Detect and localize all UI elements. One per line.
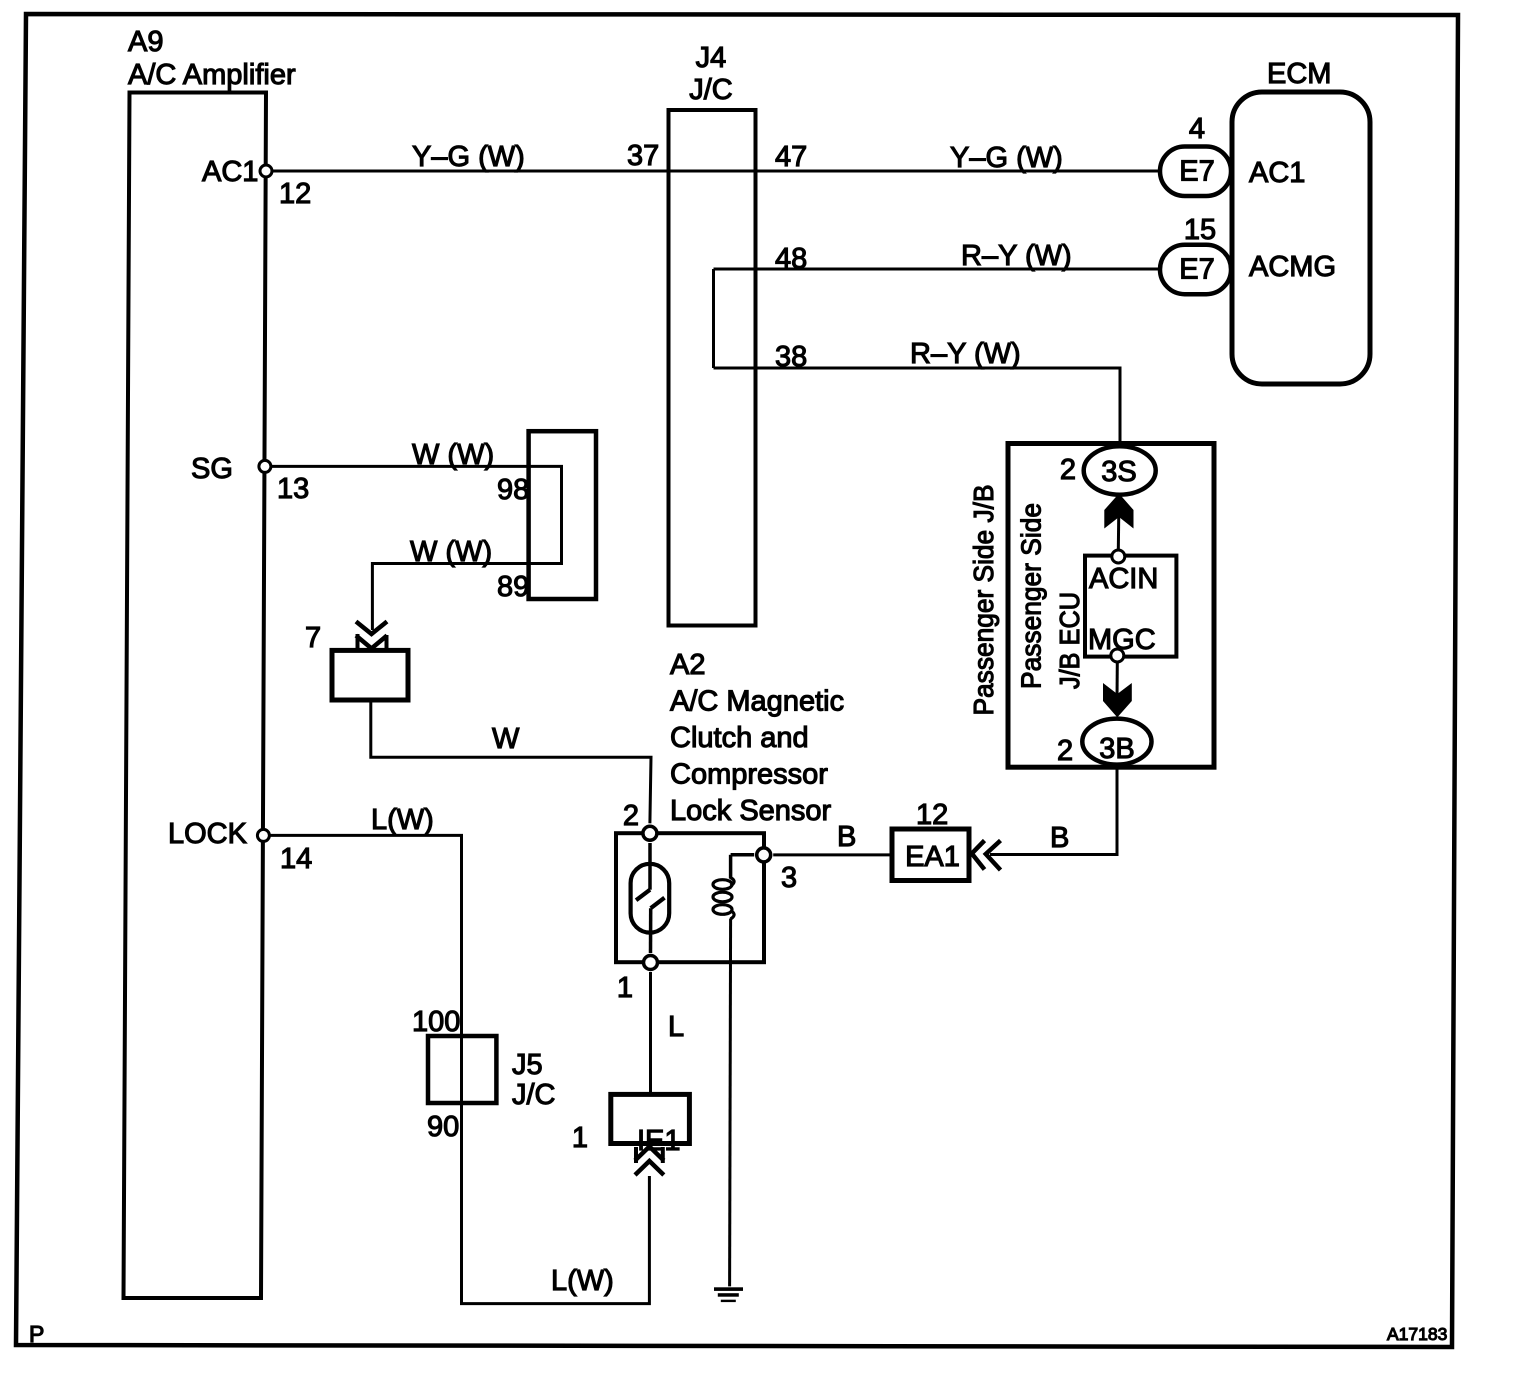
junction block 98/89 — [529, 431, 596, 599]
svg-text:J/C: J/C — [689, 74, 733, 106]
svg-text:2: 2 — [623, 800, 639, 832]
svg-text:EA1: EA1 — [905, 841, 960, 873]
pin LOCK of A9 — [257, 829, 269, 841]
wire A2 pin1 to IE1 (L) — [649, 972, 652, 1094]
svg-text:A/C Amplifier: A/C Amplifier — [128, 59, 296, 91]
svg-text:W (W): W (W) — [410, 536, 492, 568]
svg-text:J/C: J/C — [512, 1079, 556, 1111]
junction connector J5 — [428, 1036, 496, 1103]
svg-text:SG: SG — [191, 453, 233, 485]
wire 3S to ACIN — [1117, 495, 1121, 551]
svg-text:AC1: AC1 — [202, 156, 258, 188]
svg-text:ECM: ECM — [1267, 58, 1331, 90]
svg-text:E7: E7 — [1179, 156, 1214, 188]
svg-text:E7: E7 — [1179, 254, 1214, 286]
svg-text:14: 14 — [280, 843, 312, 875]
svg-text:B: B — [1050, 822, 1069, 854]
passenger side J/B box — [1008, 444, 1214, 768]
svg-text:A/C Magnetic: A/C Magnetic — [670, 686, 844, 718]
wire bracket 48-38 — [712, 269, 715, 368]
svg-text:L: L — [668, 1011, 684, 1043]
svg-text:100: 100 — [412, 1006, 460, 1038]
svg-text:47: 47 — [775, 141, 807, 173]
svg-text:MGC: MGC — [1088, 624, 1156, 656]
connector EA1 — [892, 829, 969, 881]
pin MGC — [1111, 649, 1124, 662]
A/C amplifier A9 — [124, 93, 267, 1299]
connector 3B — [1082, 719, 1151, 765]
svg-text:3: 3 — [781, 862, 797, 894]
svg-text:J4: J4 — [696, 42, 727, 74]
svg-text:Lock Sensor: Lock Sensor — [670, 795, 832, 827]
connector 3S — [1084, 446, 1156, 494]
svg-text:48: 48 — [775, 243, 807, 275]
wire LOCK to IE1 — [263, 835, 649, 1303]
svg-text:7: 7 — [305, 622, 321, 654]
svg-text:LOCK: LOCK — [168, 818, 248, 850]
svg-text:J5: J5 — [512, 1049, 543, 1081]
svg-text:A9: A9 — [128, 26, 163, 58]
svg-text:15: 15 — [1184, 214, 1216, 246]
svg-text:3S: 3S — [1101, 456, 1136, 488]
wire coil to ground — [730, 919, 731, 1287]
svg-text:89: 89 — [497, 571, 529, 603]
wire 48 (R-Y) — [714, 268, 1161, 271]
connector E7 pin 4 — [1160, 147, 1231, 197]
svg-text:R–Y (W): R–Y (W) — [961, 240, 1072, 272]
svg-text:ACIN: ACIN — [1089, 563, 1158, 595]
junction connector J4 — [669, 110, 756, 626]
svg-text:A17183: A17183 — [1387, 1324, 1447, 1344]
svg-text:W: W — [492, 723, 520, 755]
svg-text:2: 2 — [1057, 735, 1073, 767]
EA1 chevrons — [972, 841, 985, 870]
A2 sensor box — [616, 833, 764, 962]
svg-text:1: 1 — [572, 1122, 588, 1154]
svg-text:Compressor: Compressor — [670, 759, 828, 791]
svg-text:Passenger Side J/B: Passenger Side J/B — [968, 485, 999, 716]
IE1 chevrons — [635, 1147, 664, 1161]
svg-text:ACMG: ACMG — [1249, 251, 1336, 283]
svg-text:A2: A2 — [670, 649, 705, 681]
connector box 7 — [332, 650, 408, 700]
svg-text:2: 2 — [1060, 454, 1076, 486]
ground — [714, 1287, 743, 1291]
svg-text:J/B ECU: J/B ECU — [1054, 592, 1085, 689]
wire EA1 to 3B (B) — [990, 764, 1117, 855]
svg-text:Clutch and: Clutch and — [670, 722, 809, 754]
svg-text:1: 1 — [617, 972, 633, 1004]
wire 38 (R-Y) — [714, 368, 1121, 446]
arrow down — [1103, 683, 1132, 717]
svg-text:3B: 3B — [1099, 733, 1134, 765]
sensor pill element — [631, 864, 670, 933]
svg-text:AC1: AC1 — [1249, 157, 1305, 189]
pin 1 of A2 — [644, 956, 658, 970]
wire W from box 7 to A2 pin 2 — [371, 700, 651, 823]
J/B ECU box — [1085, 556, 1176, 657]
svg-text:Passenger Side: Passenger Side — [1016, 503, 1047, 689]
connector E7 pin 15 — [1160, 245, 1231, 295]
svg-text:12: 12 — [916, 799, 948, 831]
ECM box — [1232, 92, 1370, 384]
svg-text:90: 90 — [427, 1111, 459, 1143]
svg-text:38: 38 — [775, 341, 807, 373]
svg-text:R–Y (W): R–Y (W) — [910, 338, 1021, 370]
connector IE1 — [611, 1094, 690, 1143]
connector 7 chevrons — [356, 622, 387, 635]
pin AC1 of A9 — [260, 165, 272, 177]
svg-text:Y–G (W): Y–G (W) — [412, 141, 525, 173]
pin 2 of A2 — [643, 826, 657, 840]
wire pin3 to EA1 (B) — [773, 853, 892, 856]
wire SG to junction block — [265, 466, 562, 630]
svg-text:B: B — [837, 821, 856, 853]
svg-text:13: 13 — [277, 473, 309, 505]
arrow up — [1104, 494, 1133, 529]
svg-text:L(W): L(W) — [551, 1265, 614, 1297]
svg-text:W (W): W (W) — [412, 439, 494, 471]
compressor coil — [731, 853, 755, 857]
wire AC1 to E7 (Y-G) — [266, 170, 1160, 173]
svg-text:37: 37 — [627, 140, 659, 172]
svg-text:98: 98 — [497, 474, 529, 506]
svg-text:L(W): L(W) — [371, 804, 434, 836]
svg-text:Y–G (W): Y–G (W) — [950, 142, 1063, 174]
svg-text:P: P — [29, 1321, 44, 1347]
pin ACIN — [1112, 550, 1125, 563]
svg-text:12: 12 — [279, 178, 311, 210]
svg-text:4: 4 — [1189, 113, 1205, 145]
pin SG of A9 — [259, 460, 271, 472]
wire MGC to 3B — [1116, 663, 1119, 700]
pin 3 of A2 — [757, 848, 771, 862]
